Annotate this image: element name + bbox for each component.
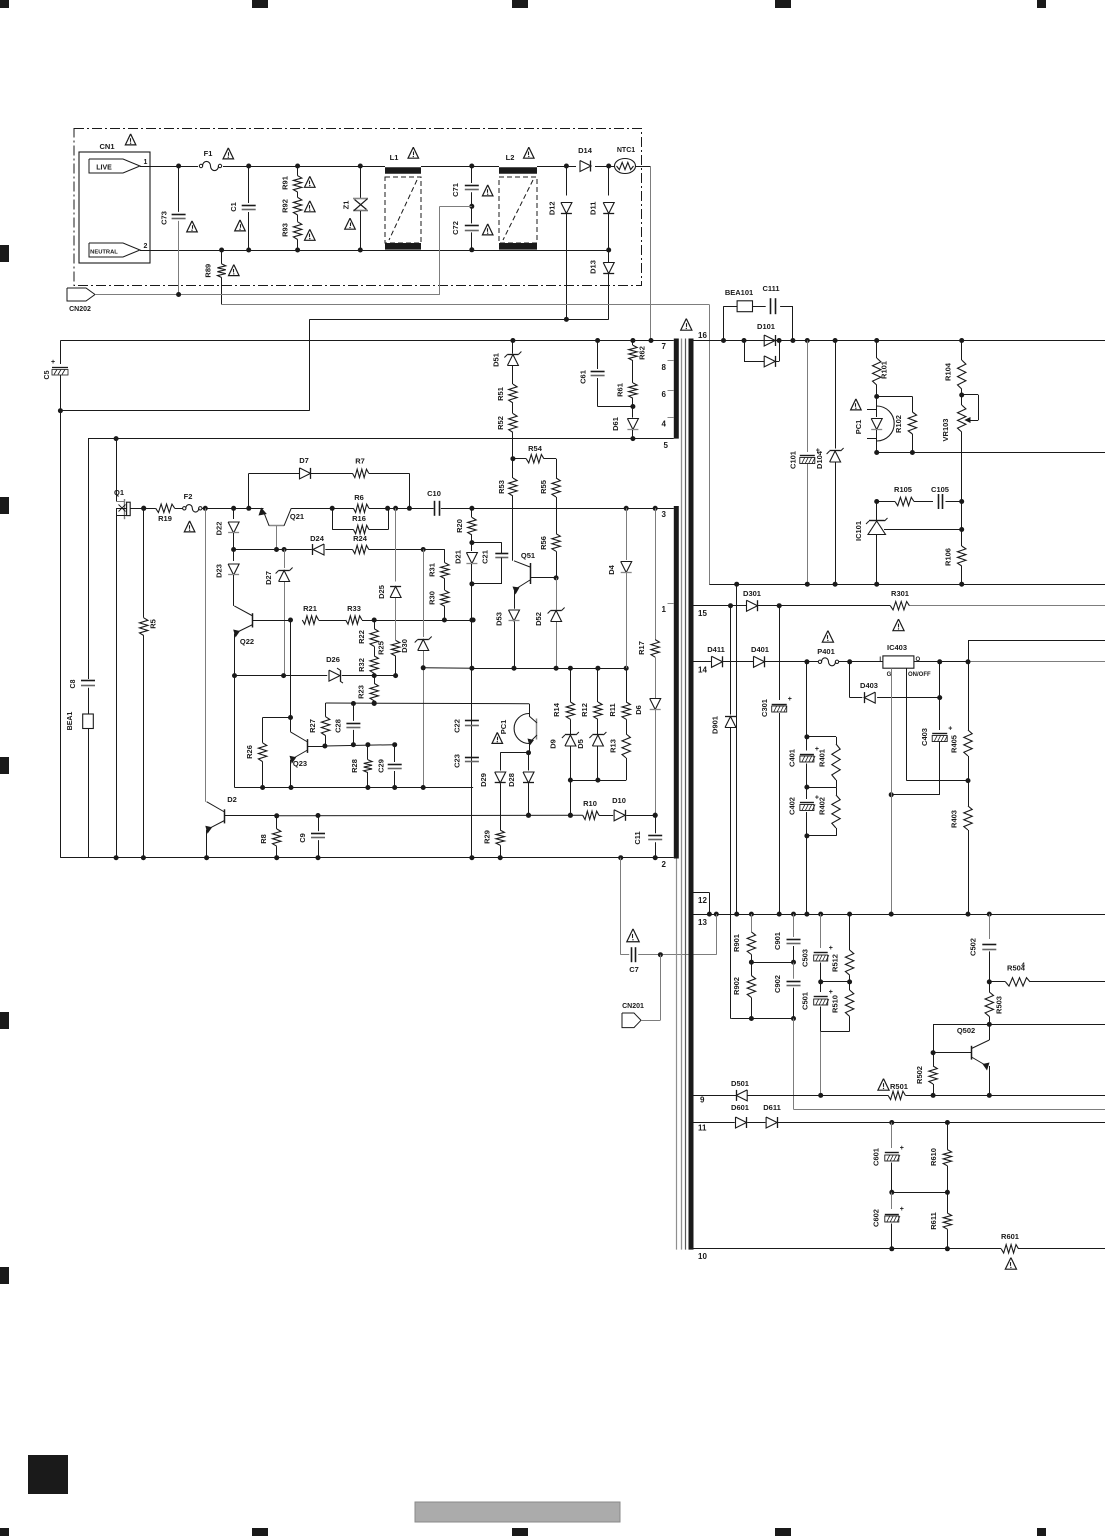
svg-text:D611: D611 bbox=[763, 1103, 781, 1112]
svg-text:D104: D104 bbox=[815, 450, 824, 469]
pin 1 tick and label bbox=[662, 604, 674, 615]
svg-text:D23: D23 bbox=[215, 564, 224, 578]
svg-text:G: G bbox=[887, 672, 892, 678]
svg-text:+: + bbox=[788, 696, 792, 703]
pin 14 label bbox=[698, 666, 707, 675]
svg-text:D13: D13 bbox=[589, 260, 598, 274]
capacitor C29 bbox=[376, 745, 401, 790]
svg-text:R106: R106 bbox=[944, 548, 953, 566]
resistor R902 bbox=[732, 962, 756, 1021]
NEUTRAL pin 2 bbox=[89, 243, 148, 257]
svg-text:D401: D401 bbox=[751, 645, 769, 654]
resistor R504 bbox=[989, 964, 1105, 987]
svg-text:R91: R91 bbox=[281, 176, 290, 190]
svg-text:D22: D22 bbox=[215, 522, 224, 536]
wire divider bottom row bbox=[731, 1018, 794, 1020]
capacitor C602 bbox=[872, 1192, 904, 1251]
resistor R8 bbox=[259, 816, 281, 860]
svg-text:D29: D29 bbox=[479, 773, 488, 787]
resistor R21 bbox=[302, 604, 345, 624]
svg-text:+: + bbox=[829, 945, 833, 952]
svg-text:C23: C23 bbox=[453, 754, 462, 768]
transformer core lines bbox=[682, 339, 686, 1250]
svg-text:R12: R12 bbox=[580, 703, 589, 717]
capacitor C21 bbox=[472, 543, 508, 584]
resistor R16 bbox=[332, 508, 388, 533]
resistor R601 bbox=[1001, 1232, 1019, 1269]
resistor R501 bbox=[888, 1091, 905, 1099]
wire C71 C72 midpoint to CN202 bbox=[440, 206, 472, 294]
svg-text:C28: C28 bbox=[333, 719, 342, 733]
wire pin14 row bbox=[694, 659, 1105, 664]
resistor R611 bbox=[929, 1192, 952, 1251]
diode D53 bbox=[495, 610, 520, 671]
svg-text:ON/OFF: ON/OFF bbox=[908, 672, 931, 678]
resistor R610 bbox=[929, 1123, 952, 1195]
svg-text:NTC1: NTC1 bbox=[617, 147, 635, 154]
svg-text:BEA1: BEA1 bbox=[67, 712, 74, 731]
wire F2 junction down to D2 collector bbox=[203, 506, 208, 802]
capacitor C11 bbox=[633, 813, 662, 860]
wire pin16 row bbox=[694, 340, 1105, 342]
resistor R14 bbox=[552, 668, 575, 734]
diode D403 bbox=[850, 662, 943, 703]
resistor R11 bbox=[608, 668, 630, 734]
svg-text:C1: C1 bbox=[229, 202, 238, 212]
pin 15 label bbox=[698, 609, 707, 618]
diode D12 bbox=[547, 164, 572, 322]
svg-text:Q502: Q502 bbox=[957, 1026, 975, 1035]
wire R24 row y549 bbox=[231, 547, 445, 552]
svg-text:BEA101: BEA101 bbox=[725, 288, 753, 297]
opto transistor PC1 bbox=[492, 704, 537, 756]
resistor R22 bbox=[357, 620, 378, 646]
svg-text:R5: R5 bbox=[149, 619, 158, 629]
svg-text:R501: R501 bbox=[890, 1082, 908, 1091]
resistor R56 bbox=[539, 534, 560, 581]
wire C503 mid row bbox=[821, 981, 850, 983]
svg-text:+: + bbox=[900, 1206, 904, 1213]
capacitor C10 bbox=[427, 489, 441, 516]
svg-text:D601: D601 bbox=[731, 1103, 749, 1112]
diode D7 bbox=[299, 456, 352, 479]
wire R27 top row y703 bbox=[326, 701, 529, 706]
svg-text:VR103: VR103 bbox=[941, 419, 950, 442]
capacitor C503 bbox=[801, 914, 833, 984]
resistor R24 bbox=[353, 534, 369, 554]
svg-text:R52: R52 bbox=[496, 416, 505, 430]
regulator IC403 bbox=[879, 643, 931, 678]
resistor R10 bbox=[583, 799, 599, 820]
svg-text:C21: C21 bbox=[480, 550, 489, 564]
svg-text:R29: R29 bbox=[482, 830, 491, 844]
pin 6 tick and label bbox=[662, 390, 674, 399]
svg-text:R51: R51 bbox=[496, 387, 505, 401]
wire chassis from R89 bbox=[222, 305, 710, 585]
ferrite bead BEA1 bbox=[67, 712, 93, 858]
resistor R62 bbox=[629, 338, 647, 383]
pin 12 label bbox=[698, 896, 707, 905]
warning triangle and R501 bbox=[878, 1079, 908, 1091]
LIVE pin 1 bbox=[89, 159, 148, 173]
resistor R55 bbox=[539, 459, 560, 534]
resistor R51 bbox=[496, 384, 517, 403]
svg-text:C902: C902 bbox=[773, 975, 782, 993]
capacitor C105 bbox=[931, 485, 964, 509]
svg-text:D411: D411 bbox=[707, 645, 725, 654]
svg-text:R28: R28 bbox=[350, 759, 359, 773]
diode D301 bbox=[743, 589, 761, 611]
fuse F1 bbox=[199, 148, 233, 171]
wire AC live top bbox=[140, 166, 651, 168]
resistor R13 bbox=[608, 734, 630, 780]
resistor R105 bbox=[874, 485, 933, 506]
wire IC403 output up and right bbox=[968, 641, 1105, 662]
svg-text:C401: C401 bbox=[788, 749, 797, 767]
wire C5 line down left edge bbox=[60, 411, 62, 858]
svg-text:LIVE: LIVE bbox=[96, 165, 112, 172]
svg-text:R10: R10 bbox=[583, 799, 597, 808]
svg-text:D52: D52 bbox=[534, 612, 543, 626]
wire pin10 row bbox=[694, 1248, 1105, 1250]
svg-text:D9: D9 bbox=[549, 739, 558, 749]
surge arrester Z1 bbox=[342, 164, 368, 253]
svg-text:C29: C29 bbox=[376, 759, 385, 773]
svg-text:R7: R7 bbox=[355, 457, 365, 466]
warning triangle near CN1 bbox=[125, 134, 136, 145]
wire pin7 row bbox=[60, 341, 673, 365]
svg-text:D24: D24 bbox=[310, 534, 325, 543]
wire divider mid row bbox=[751, 962, 793, 964]
svg-text:R61: R61 bbox=[615, 383, 624, 397]
page number block bottom left bbox=[28, 1455, 68, 1494]
resistor R101 bbox=[873, 338, 889, 399]
svg-text:C501: C501 bbox=[801, 992, 810, 1010]
svg-text:D4: D4 bbox=[607, 564, 616, 574]
svg-text:C73: C73 bbox=[160, 211, 169, 225]
svg-text:C7: C7 bbox=[629, 965, 639, 974]
wire ground bus to C7 bbox=[716, 914, 718, 955]
capacitor C502 bbox=[969, 914, 997, 984]
net label 4 bbox=[1021, 962, 1025, 969]
wire y780 row bbox=[568, 780, 626, 818]
resistor R901 bbox=[732, 914, 756, 965]
svg-text:11: 11 bbox=[698, 1124, 707, 1133]
zener D104 bbox=[815, 338, 844, 584]
svg-text:D10: D10 bbox=[612, 796, 626, 805]
shunt regulator IC101 bbox=[854, 502, 964, 585]
wire primary bottom rail y857 bbox=[60, 855, 673, 860]
wire Q22 block bottom y787 bbox=[235, 787, 474, 789]
svg-text:Q21: Q21 bbox=[290, 512, 304, 521]
resistor R23 bbox=[357, 683, 379, 705]
pin 16 label bbox=[698, 331, 707, 340]
diode D6 bbox=[634, 699, 661, 818]
svg-text:NEUTRAL: NEUTRAL bbox=[90, 250, 118, 256]
svg-text:D501: D501 bbox=[731, 1079, 749, 1088]
wire pin5 row bbox=[88, 439, 674, 680]
svg-text:C403: C403 bbox=[920, 728, 929, 746]
resistor R91 bbox=[281, 164, 316, 193]
connector CN201 bbox=[622, 955, 661, 1028]
svg-text:D12: D12 bbox=[547, 201, 556, 215]
capacitor C7 bbox=[621, 947, 717, 974]
svg-text:R53: R53 bbox=[497, 480, 506, 494]
capacitor C301 bbox=[760, 606, 792, 917]
resistor R5 bbox=[140, 506, 158, 858]
svg-text:R503: R503 bbox=[995, 996, 1004, 1014]
svg-text:C61: C61 bbox=[578, 370, 587, 384]
svg-text:R101: R101 bbox=[880, 361, 889, 379]
wire pin9 row bbox=[694, 1095, 1105, 1097]
svg-text:+: + bbox=[829, 989, 833, 996]
diode D14 bbox=[578, 146, 593, 172]
pin 5 label bbox=[664, 441, 669, 450]
svg-text:C503: C503 bbox=[801, 949, 810, 967]
svg-text:R104: R104 bbox=[944, 362, 953, 381]
pin 7 label bbox=[662, 342, 667, 351]
zener D51 bbox=[492, 338, 522, 384]
svg-text:1: 1 bbox=[662, 605, 667, 614]
zener D5 bbox=[576, 732, 606, 783]
svg-text:R22: R22 bbox=[357, 630, 366, 644]
zener D9 bbox=[549, 732, 579, 783]
resistor R104 bbox=[944, 338, 966, 398]
svg-text:L1: L1 bbox=[390, 153, 399, 162]
svg-text:12: 12 bbox=[698, 896, 707, 905]
svg-text:D27: D27 bbox=[264, 571, 273, 585]
svg-text:9: 9 bbox=[700, 1096, 705, 1105]
wire D21 column to bottom rail bbox=[469, 788, 474, 861]
svg-text:R32: R32 bbox=[357, 658, 366, 672]
wire negative rail y319 bbox=[58, 319, 567, 413]
wire rail drop to ground bus bbox=[734, 584, 739, 916]
svg-text:C101: C101 bbox=[789, 451, 798, 469]
capacitor C101 bbox=[789, 338, 820, 584]
svg-text:O: O bbox=[916, 657, 921, 663]
diode D501 bbox=[731, 1079, 749, 1101]
transistor Q502 bbox=[933, 1024, 992, 1098]
resistor R92 bbox=[281, 192, 316, 215]
svg-text:C602: C602 bbox=[872, 1209, 881, 1227]
pin 11 label bbox=[698, 1124, 707, 1133]
svg-text:C105: C105 bbox=[931, 485, 949, 494]
svg-text:R54: R54 bbox=[528, 444, 543, 453]
svg-text:R405: R405 bbox=[950, 735, 959, 753]
svg-text:R19: R19 bbox=[158, 514, 172, 523]
connector CN202 bbox=[67, 288, 95, 313]
svg-text:D28: D28 bbox=[507, 773, 516, 787]
svg-text:D101: D101 bbox=[757, 322, 775, 331]
warning triangle above C7 bbox=[627, 929, 639, 942]
svg-text:C402: C402 bbox=[788, 797, 797, 815]
resistor R20 bbox=[455, 506, 476, 545]
diode D21 bbox=[453, 543, 477, 587]
resistor R27 bbox=[308, 703, 330, 746]
svg-text:R17: R17 bbox=[637, 641, 646, 655]
svg-text:C11: C11 bbox=[633, 831, 642, 844]
svg-text:R11: R11 bbox=[608, 703, 617, 716]
diode D601 bbox=[731, 1103, 749, 1128]
diode D61 bbox=[611, 407, 639, 442]
diode D10 bbox=[612, 796, 626, 821]
svg-text:R62: R62 bbox=[638, 346, 647, 360]
wire secondary top rail y584 bbox=[709, 582, 1105, 587]
svg-text:10: 10 bbox=[698, 1252, 707, 1261]
wire IC403 G pin to ground bbox=[889, 668, 894, 916]
wire CN202 row bbox=[95, 292, 440, 297]
svg-text:CN1: CN1 bbox=[99, 142, 114, 151]
svg-text:R21: R21 bbox=[303, 604, 317, 613]
svg-text:R25: R25 bbox=[376, 641, 385, 655]
capacitor C28 bbox=[333, 704, 360, 748]
resistor R502 bbox=[915, 1053, 937, 1098]
wire main primary row y508 bbox=[141, 506, 674, 511]
svg-text:Z1: Z1 bbox=[342, 201, 351, 210]
transistor Q21 bbox=[259, 508, 305, 550]
svg-text:R401: R401 bbox=[818, 749, 827, 767]
resistor R53 bbox=[497, 459, 517, 561]
svg-text:R13: R13 bbox=[608, 739, 617, 753]
resistor R93 bbox=[281, 215, 316, 253]
diode D411 bbox=[707, 645, 725, 667]
svg-text:2: 2 bbox=[662, 860, 667, 869]
svg-text:R16: R16 bbox=[352, 514, 366, 523]
svg-text:C72: C72 bbox=[451, 221, 460, 235]
transformer primary bar lower bbox=[674, 506, 679, 859]
svg-text:1: 1 bbox=[144, 159, 148, 166]
svg-text:F1: F1 bbox=[204, 149, 213, 158]
transformer secondary bar bbox=[689, 339, 694, 1250]
svg-text:8: 8 bbox=[662, 363, 667, 372]
transistor Q51 bbox=[513, 551, 557, 609]
svg-text:5: 5 bbox=[664, 441, 669, 450]
svg-text:C111: C111 bbox=[762, 284, 779, 293]
wire C601 mid row bbox=[892, 1192, 948, 1194]
diode D29 bbox=[479, 753, 528, 831]
svg-text:Q23: Q23 bbox=[293, 759, 307, 768]
capacitor C111 bbox=[762, 284, 795, 343]
svg-text:D14: D14 bbox=[578, 146, 593, 155]
capacitor C73 bbox=[160, 164, 198, 295]
svg-text:4: 4 bbox=[1021, 962, 1025, 969]
resistor R7 bbox=[353, 457, 412, 511]
zener D26 bbox=[326, 655, 343, 683]
wire PC1 row y452 to page edge bbox=[877, 452, 1105, 454]
diode D23 bbox=[215, 550, 240, 606]
svg-text:C601: C601 bbox=[872, 1148, 881, 1166]
capacitor C403 bbox=[889, 662, 953, 797]
capacitor C22 bbox=[453, 719, 479, 733]
zener D25 bbox=[377, 506, 401, 641]
svg-text:16: 16 bbox=[698, 331, 707, 340]
svg-text:R92: R92 bbox=[281, 199, 290, 213]
resistor R61 bbox=[615, 383, 637, 409]
resistor R503 bbox=[985, 982, 1003, 1027]
diode D11 bbox=[589, 164, 615, 253]
pin 9 label bbox=[700, 1096, 705, 1105]
svg-text:D26: D26 bbox=[326, 655, 340, 664]
svg-text:R14: R14 bbox=[552, 702, 561, 717]
svg-text:C901: C901 bbox=[773, 932, 782, 950]
resistor R6 bbox=[330, 493, 390, 513]
svg-text:R402: R402 bbox=[818, 797, 827, 815]
svg-text:D901: D901 bbox=[711, 716, 720, 734]
svg-text:R55: R55 bbox=[539, 480, 548, 494]
capacitor C901 bbox=[773, 914, 801, 965]
svg-text:6: 6 bbox=[662, 390, 667, 399]
resistor R17 bbox=[637, 506, 659, 698]
resistor R403 bbox=[950, 781, 973, 917]
resistor R28 bbox=[350, 745, 372, 790]
svg-text:C5: C5 bbox=[44, 370, 51, 379]
transformer primary bar upper bbox=[674, 339, 679, 439]
wire NTC output to pin7 bbox=[649, 166, 654, 343]
capacitor C61 bbox=[578, 338, 633, 407]
resistor R405 bbox=[950, 641, 973, 781]
transistor Q1 bbox=[114, 488, 144, 519]
wire IC403 ONOFF pin bbox=[907, 668, 971, 783]
fuse P401 bbox=[817, 631, 838, 666]
svg-text:C502: C502 bbox=[969, 938, 978, 956]
capacitor C5 bbox=[44, 359, 68, 411]
svg-text:L2: L2 bbox=[506, 153, 515, 162]
svg-text:13: 13 bbox=[698, 918, 707, 927]
svg-text:C9: C9 bbox=[298, 833, 307, 843]
svg-text:C8: C8 bbox=[70, 679, 77, 688]
svg-text:C301: C301 bbox=[760, 699, 769, 717]
resistor R25 bbox=[376, 640, 399, 678]
zener D27 bbox=[264, 550, 293, 679]
pin 10 label bbox=[698, 1252, 707, 1261]
capacitor C902 bbox=[773, 962, 801, 1021]
fuse F2 bbox=[183, 492, 202, 532]
svg-text:P401: P401 bbox=[817, 647, 835, 656]
connector CN1 bbox=[79, 142, 150, 263]
zener D52 bbox=[534, 578, 565, 671]
wire D7 branch riser bbox=[246, 473, 299, 510]
diode D101 pair bbox=[742, 322, 782, 367]
pin 4 tick and label bbox=[662, 418, 674, 429]
svg-text:D61: D61 bbox=[611, 417, 620, 431]
svg-text:15: 15 bbox=[698, 609, 707, 618]
svg-text:IC403: IC403 bbox=[887, 643, 907, 652]
capacitor C71 bbox=[451, 164, 493, 209]
svg-text:R56: R56 bbox=[539, 536, 548, 550]
resistor R26 bbox=[245, 718, 267, 791]
svg-text:2: 2 bbox=[144, 243, 148, 250]
wire AC neutral bbox=[140, 250, 609, 252]
wire pin15 row bbox=[694, 603, 1105, 608]
resistor R12 bbox=[580, 668, 602, 734]
svg-text:R24: R24 bbox=[353, 534, 368, 543]
svg-text:D403: D403 bbox=[860, 681, 878, 690]
svg-text:IC101: IC101 bbox=[854, 521, 863, 541]
svg-text:R611: R611 bbox=[929, 1212, 938, 1230]
diode D28 bbox=[507, 753, 534, 818]
capacitor C401 resistor R401 bbox=[788, 662, 841, 790]
pin 8 tick and label bbox=[662, 361, 674, 373]
wire C902 bottom to sense row bbox=[793, 1019, 795, 1110]
svg-text:D25: D25 bbox=[377, 585, 386, 599]
diode D611 bbox=[763, 1103, 781, 1128]
svg-text:R610: R610 bbox=[929, 1148, 938, 1166]
svg-text:R301: R301 bbox=[891, 589, 909, 598]
svg-text:D301: D301 bbox=[743, 589, 761, 598]
resistor R52 bbox=[496, 403, 517, 459]
registration marks top edge bbox=[0, 0, 1046, 8]
svg-text:R27: R27 bbox=[308, 719, 317, 733]
